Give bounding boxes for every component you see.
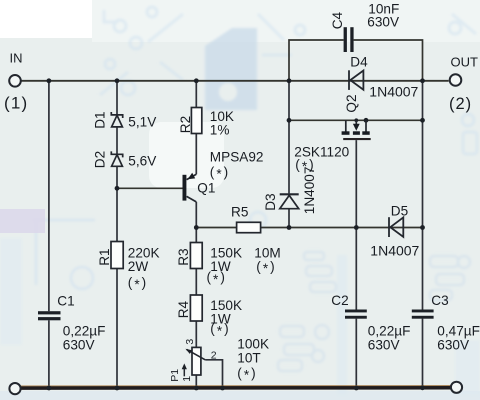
svg-text:D2: D2: [93, 151, 108, 168]
wire: D3 anode down to R5 row: [288, 209, 290, 228]
terminal IN: [9, 75, 21, 87]
svg-text:(*): (*): [207, 270, 227, 287]
svg-text:(*): (*): [210, 321, 230, 338]
svg-text:D1: D1: [93, 111, 108, 128]
wire: C4 right wire over and down to rail: [354, 40, 423, 81]
junction node: ground/C2: [354, 386, 359, 391]
svg-text:(*): (*): [128, 275, 148, 292]
svg-text:IN: IN: [10, 50, 23, 65]
svg-text:OUT: OUT: [451, 54, 479, 69]
wire: D1 anode to D2 cathode: [116, 127, 118, 154]
svg-text:2W: 2W: [128, 259, 149, 274]
terminal OUT: [450, 74, 462, 86]
wire: C2 bottom plate to ground rail: [355, 319, 357, 388]
wire: R3 bottom to R4 top: [195, 269, 197, 296]
capacitor C1: [38, 311, 61, 320]
zener diode D2: [111, 151, 122, 166]
wire: top supply rail from IN terminal to OUT terminal (y=81): [21, 80, 449, 82]
wire: rail to R2 top: [195, 81, 197, 108]
diode D3: [280, 194, 299, 208]
svg-text:1N4007: 1N4007: [302, 167, 317, 215]
svg-text:1%: 1%: [210, 122, 230, 137]
resistor R2: [191, 108, 201, 134]
svg-text:(1): (1): [4, 94, 28, 113]
junction node: R5 row at D3 branch: [287, 225, 292, 230]
wire: Q1 base wire: [117, 187, 183, 189]
svg-text:1N4007: 1N4007: [369, 83, 418, 99]
junction node: rail/C1: [47, 78, 52, 83]
svg-text:1N4007: 1N4007: [370, 243, 419, 259]
svg-text:(2): (2): [449, 95, 472, 113]
svg-text:0,22µF: 0,22µF: [368, 323, 411, 338]
junction node: ground/C3: [420, 385, 425, 390]
svg-text:630V: 630V: [367, 14, 399, 29]
junction node: Q1 collector / R5 row: [194, 225, 199, 230]
wire: R2 bottom to Q1 emitter: [195, 134, 197, 175]
svg-text:(*): (*): [237, 365, 257, 382]
svg-text:R5: R5: [231, 204, 248, 219]
svg-text:630V: 630V: [368, 337, 400, 352]
svg-text:630V: 630V: [63, 337, 95, 352]
wire: horizontal gate bus y=120: [289, 119, 423, 121]
resistor R4: [190, 295, 202, 321]
zener diode D1: [111, 112, 122, 127]
svg-text:2SK1120: 2SK1120: [294, 144, 349, 159]
wire: R4 bottom to P1 top (terminal 3): [195, 321, 197, 347]
junction node: ground/R1: [115, 386, 120, 391]
svg-text:1: 1: [181, 376, 193, 382]
svg-text:Q1: Q1: [197, 180, 215, 195]
svg-text:(*): (*): [256, 259, 276, 276]
junction node: gate bus right at vertical bus: [420, 118, 425, 123]
wire: right vertical bus x=422.5 rail to C3 top: [422, 81, 424, 310]
P1 adjustment arrow: [182, 363, 187, 376]
svg-text:R4: R4: [176, 300, 191, 318]
svg-text:0,47µF: 0,47µF: [437, 323, 480, 338]
junction node: gate bus at Q2 body arrow: [354, 118, 358, 122]
svg-text:P1: P1: [169, 369, 181, 382]
potentiometer P1: [185, 347, 205, 375]
wire: D3 branch vertical x=289 from rail to D3 cathode: [288, 81, 290, 194]
resistor R5: [237, 222, 261, 232]
svg-text:MPSA92: MPSA92: [210, 149, 264, 164]
wire: C4 left riser from rail up and over: [289, 40, 344, 81]
svg-text:C4: C4: [330, 11, 345, 29]
junction node: gate bus at Q2 source stub: [364, 118, 369, 123]
junction node: R5 row at C2 branch: [354, 225, 359, 230]
wire: Q2 gate lead down to R5 row: [355, 140, 357, 227]
wire: R1 bottom to ground rail: [116, 269, 118, 389]
svg-text:10T: 10T: [237, 350, 260, 365]
junction node: gate bus left at D3 branch: [287, 118, 292, 123]
ground rail: thick bottom rail: [20, 386, 451, 390]
svg-text:R3: R3: [176, 248, 191, 265]
wire: zener branch from rail to D1 cathode: [116, 81, 118, 115]
junction node: rail/C4 right: [420, 78, 425, 83]
terminal ground left: [9, 383, 20, 394]
junction node: D5 row at right bus: [420, 225, 425, 230]
svg-text:C1: C1: [57, 293, 74, 308]
svg-text:R1: R1: [97, 248, 112, 265]
wire: P1 bottom (terminal 1) to ground rail: [195, 375, 197, 388]
terminal ground right: [451, 382, 462, 393]
svg-text:0,22µF: 0,22µF: [63, 323, 106, 338]
resistor R3: [190, 243, 202, 269]
junction node: rail/R2: [194, 78, 199, 83]
svg-text:D4: D4: [350, 54, 368, 69]
junction node: rail/zener branch: [115, 78, 120, 83]
junction node: zener chain to Q1 base: [115, 186, 120, 191]
resistor R1: [111, 242, 123, 269]
wire: P1 wiper (terminal 2) down to ground rail: [205, 360, 222, 388]
svg-text:C2: C2: [331, 293, 348, 308]
capacitor C4: [344, 27, 354, 52]
svg-text:630V: 630V: [437, 337, 469, 352]
diode D4: [349, 70, 363, 90]
junction node: ground/P1 wiper: [220, 386, 225, 391]
wire: C2 branch R5 row to C2 top plate: [355, 228, 357, 310]
capacitor C2: [345, 310, 367, 319]
svg-text:2: 2: [211, 350, 217, 362]
wire: C1 bottom plate to ground rail: [48, 320, 50, 388]
svg-text:C3: C3: [431, 293, 448, 308]
wire: R5/D5 horizontal row y=227.5: [196, 227, 422, 229]
diode D5: [389, 217, 403, 237]
svg-text:(*): (*): [210, 164, 230, 181]
capacitor C3: [412, 310, 434, 319]
junction node: ground/P1 terminal 1: [194, 386, 199, 391]
svg-text:5,1V: 5,1V: [128, 114, 156, 129]
svg-text:3: 3: [184, 339, 196, 345]
wire: C1 branch from rail to C1 top plate: [48, 81, 50, 311]
svg-text:R2: R2: [178, 116, 193, 133]
junction node: rail/C4 left: [287, 78, 292, 83]
MOSFET Q2 2SK1120: [342, 120, 371, 140]
wire: D2 anode down to R1 top: [116, 166, 118, 241]
svg-text:100K: 100K: [237, 336, 269, 351]
junction node: ground/C1: [47, 386, 52, 391]
svg-text:D3: D3: [263, 193, 278, 210]
svg-text:5,6V: 5,6V: [128, 154, 156, 169]
wire: Q1 collector lead down to R5 row: [195, 202, 197, 243]
svg-text:Q2: Q2: [344, 94, 359, 112]
wire: right vertical bus C3 bottom to ground rail: [422, 319, 424, 388]
transistor Q1 MPSA92: [183, 173, 197, 202]
svg-text:D5: D5: [391, 203, 408, 218]
